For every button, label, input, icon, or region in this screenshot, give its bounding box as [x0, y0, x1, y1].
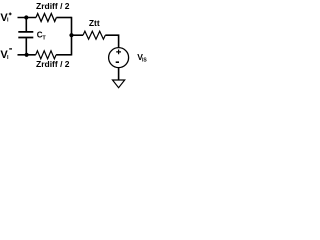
resistor Zrdiff/2 bottom [36, 51, 56, 59]
capacitor CT stub bottom [25, 38, 27, 55]
svg-text:Ztt: Ztt [89, 18, 100, 28]
voltage source minus sign [116, 61, 119, 63]
wire bottom rail left [18, 54, 36, 56]
terminal label Vi- [0, 49, 12, 61]
wire source to ground [118, 68, 120, 81]
node junction dot top [24, 15, 28, 19]
ground symbol [113, 80, 125, 88]
wire bottom rail right [56, 54, 71, 56]
wire top rail left [18, 17, 37, 19]
capacitor CT stub top [25, 18, 27, 32]
wire mid rail right with corner down to source [105, 35, 118, 48]
wire top rail right with corner into vertical bus [56, 17, 71, 19]
voltage source Vis circle [109, 48, 129, 68]
node junction dot mid (bus tap) [69, 33, 73, 37]
node junction dot bottom [25, 53, 29, 57]
svg-text:Zrdiff / 2: Zrdiff / 2 [36, 1, 70, 11]
svg-text:IS: IS [142, 58, 147, 64]
resistor Zrdiff/2 top [36, 14, 56, 22]
resistor Ztt [83, 31, 105, 39]
label Vis [137, 52, 147, 63]
svg-text:Zrdiff / 2: Zrdiff / 2 [36, 59, 70, 69]
wire vertical bus [71, 17, 73, 56]
capacitor CT plates [18, 32, 33, 38]
label CT [37, 30, 47, 41]
terminal label Vi+ [0, 12, 11, 24]
wire mid rail left [72, 34, 84, 36]
voltage source plus sign [116, 50, 121, 55]
